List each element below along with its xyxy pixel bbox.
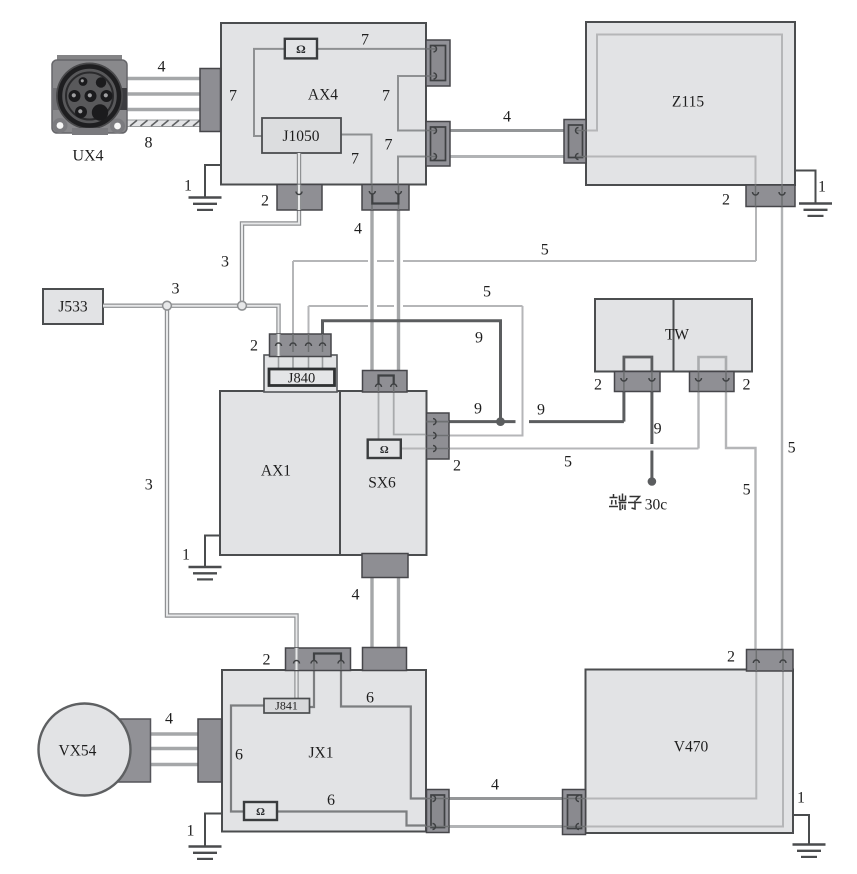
svg-text:5: 5 <box>564 454 572 471</box>
svg-text:9: 9 <box>537 402 545 419</box>
svg-text:6: 6 <box>327 792 335 809</box>
svg-text:SX6: SX6 <box>368 474 396 491</box>
svg-text:2: 2 <box>263 652 271 669</box>
svg-text:7: 7 <box>385 137 393 154</box>
svg-text:8: 8 <box>145 135 153 152</box>
svg-text:2: 2 <box>250 338 258 355</box>
svg-text:1: 1 <box>184 178 192 195</box>
svg-text:2: 2 <box>594 377 602 394</box>
svg-text:1: 1 <box>187 823 195 840</box>
svg-text:4: 4 <box>158 59 166 76</box>
svg-text:1: 1 <box>818 179 826 196</box>
svg-text:Ω: Ω <box>296 42 306 56</box>
svg-text:1: 1 <box>797 790 805 807</box>
svg-text:V470: V470 <box>674 738 709 755</box>
svg-text:7: 7 <box>361 32 369 49</box>
svg-text:4: 4 <box>503 109 511 126</box>
svg-text:7: 7 <box>382 88 390 105</box>
svg-text:AX4: AX4 <box>308 86 338 103</box>
svg-text:5: 5 <box>483 284 491 301</box>
svg-text:6: 6 <box>235 747 243 764</box>
svg-text:J1050: J1050 <box>282 128 319 145</box>
svg-text:2: 2 <box>261 193 269 210</box>
svg-text:3: 3 <box>172 281 180 298</box>
svg-text:7: 7 <box>351 151 359 168</box>
svg-text:JX1: JX1 <box>309 744 334 761</box>
svg-text:Ω: Ω <box>380 444 389 456</box>
svg-text:2: 2 <box>453 458 461 475</box>
svg-text:5: 5 <box>541 242 549 259</box>
svg-text:Ω: Ω <box>256 806 265 818</box>
svg-text:4: 4 <box>352 587 360 604</box>
svg-text:4: 4 <box>491 777 499 794</box>
svg-text:VX54: VX54 <box>59 742 97 759</box>
svg-text:2: 2 <box>727 649 735 666</box>
svg-text:Z115: Z115 <box>672 93 704 110</box>
svg-text:5: 5 <box>743 482 751 499</box>
svg-text:9: 9 <box>654 421 662 438</box>
svg-text:3: 3 <box>145 477 153 494</box>
svg-text:7: 7 <box>229 88 237 105</box>
svg-text:J533: J533 <box>58 298 88 315</box>
svg-text:3: 3 <box>221 254 229 271</box>
svg-text:6: 6 <box>366 690 374 707</box>
svg-text:2: 2 <box>743 377 751 394</box>
svg-text:AX1: AX1 <box>261 462 291 479</box>
svg-text:1: 1 <box>182 547 190 564</box>
svg-text:30c: 30c <box>645 497 668 514</box>
svg-text:J841: J841 <box>275 699 298 713</box>
svg-text:5: 5 <box>788 440 796 457</box>
svg-text:4: 4 <box>354 221 362 238</box>
svg-text:2: 2 <box>722 192 730 209</box>
svg-text:4: 4 <box>165 711 173 728</box>
svg-text:9: 9 <box>474 401 482 418</box>
svg-text:9: 9 <box>475 330 483 347</box>
svg-text:UX4: UX4 <box>72 148 103 165</box>
svg-text:J840: J840 <box>288 371 315 387</box>
svg-text:TW: TW <box>665 326 689 343</box>
